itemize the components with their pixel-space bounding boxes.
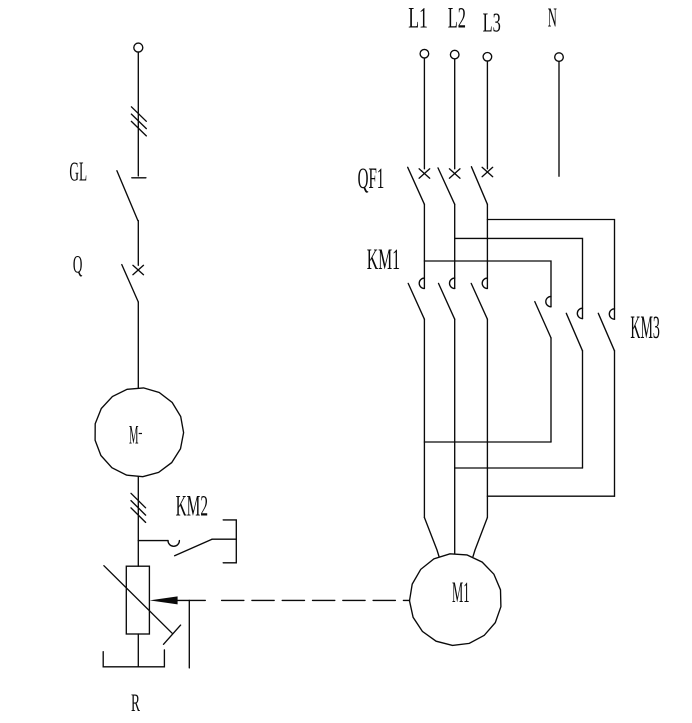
svg-text:L1: L1	[408, 2, 428, 34]
contactor KM1 pole3 blade	[471, 283, 487, 319]
svg-text:M: M	[129, 419, 139, 449]
wire: tap L2 to KM3 pole2	[455, 238, 583, 318]
wire: KM1 pole1 down	[423, 319, 425, 517]
svg-text:M1: M1	[452, 576, 470, 609]
contactor KM3 pole3 arc	[609, 309, 614, 319]
disconnector GL blade	[117, 171, 138, 221]
wire: left feeder drop to GL	[137, 52, 139, 176]
mechanical link arrowhead	[150, 596, 178, 604]
wire: KM3 pole3 down	[614, 351, 616, 496]
mechanical link dashed line to M1	[222, 599, 410, 601]
resistor R adjustment diagonal	[104, 566, 172, 634]
motor M1 circle	[410, 554, 501, 646]
svg-text:QF1: QF1	[358, 162, 385, 195]
svg-text:KM2: KM2	[176, 489, 208, 522]
svg-text:KM1: KM1	[367, 243, 400, 276]
wire: GL to Q	[137, 221, 139, 266]
label M dash	[139, 433, 142, 435]
breaker QF1 pole3 cross	[482, 167, 493, 176]
svg-text:KM3: KM3	[630, 310, 660, 346]
svg-text:L3: L3	[483, 7, 501, 37]
wire: tap L3 to KM3 pole3	[487, 220, 614, 320]
breaker Q cross mark	[133, 265, 144, 274]
wire: converge left into M1	[424, 518, 439, 557]
wire: join KM1 pole2 / KM3 pole2	[455, 467, 583, 469]
contact KM2 blade	[175, 539, 212, 556]
disconnector GL fixed contact T-bar	[132, 177, 146, 179]
terminal circle L1	[420, 49, 429, 58]
resistor bottom bracket	[103, 650, 164, 667]
contact KM2 fixed contact arc	[168, 541, 179, 547]
breaker QF1 pole2 blade	[438, 168, 455, 204]
wire: KM3 pole1 down	[550, 338, 552, 442]
wire: QF1 pole1 to KM1	[423, 204, 425, 288]
terminal circle N	[555, 53, 564, 62]
wire: QF1 pole2 to KM1	[454, 204, 456, 288]
contactor KM3 pole1 arc	[546, 296, 551, 306]
slider drop wire	[188, 600, 190, 668]
resistor R body	[126, 566, 149, 634]
wire: L2 drop to QF1	[454, 59, 456, 169]
contactor KM1 pole3 arc	[482, 278, 487, 288]
breaker QF1 pole1 blade	[408, 167, 425, 204]
wire: L3 drop to QF1	[486, 61, 488, 169]
wire: converge right into M1	[473, 518, 487, 557]
wire: KM1 pole2 down to motor	[454, 319, 456, 553]
contactor KM1 pole2 arc	[450, 278, 455, 288]
contactor KM1 pole1 blade	[408, 283, 424, 319]
contactor KM1 pole2 blade	[439, 283, 455, 319]
wire: QF1 pole3 to KM1	[486, 204, 488, 288]
breaker Q blade	[122, 265, 139, 302]
breaker QF1 pole1 cross	[419, 169, 430, 178]
mechanical link solid lead	[178, 599, 206, 601]
contactor KM3 pole3 blade	[598, 313, 614, 351]
terminal circle L3	[483, 53, 492, 62]
svg-text:N: N	[548, 2, 557, 33]
wire: tap L1 to KM3 pole1	[424, 261, 551, 307]
svg-text:L2: L2	[448, 2, 466, 34]
wire: KM2 branch horizontal	[138, 540, 168, 542]
breaker QF1 pole2 cross	[449, 169, 460, 178]
contactor KM3 pole2 arc	[577, 308, 582, 318]
wire: join KM1 pole1 / KM3 pole1	[424, 441, 551, 443]
svg-text:R: R	[131, 690, 140, 717]
svg-text:Q: Q	[73, 251, 83, 278]
wire: L1 drop to QF1	[423, 58, 425, 169]
wire: KM1 pole3 down	[486, 319, 488, 517]
wire: resistor bottom stub	[137, 634, 139, 667]
breaker QF1 pole3 blade	[471, 167, 487, 205]
contactor KM3 pole2 blade	[566, 313, 582, 351]
3-phase hash marks (top)	[131, 107, 146, 136]
contactor KM3 pole1 blade	[535, 302, 551, 338]
3-phase hash marks (bottom)	[131, 493, 146, 522]
terminal circle (left feeder top)	[134, 43, 143, 52]
wire: motor M to resistor R	[137, 477, 139, 566]
motor M circle	[95, 388, 184, 477]
resistor R preset T-bar	[164, 625, 181, 644]
wire: KM3 pole2 down	[582, 351, 584, 468]
wire: Q to motor M	[137, 302, 139, 388]
wire: KM2 blade to bracket	[212, 538, 236, 540]
contactor KM1 pole1 arc	[419, 278, 424, 288]
KM2 right bracket	[223, 520, 236, 563]
svg-text:GL: GL	[69, 157, 87, 187]
wire: join KM1 pole3 / KM3 pole3	[487, 495, 614, 497]
wire: N stub	[558, 61, 560, 176]
terminal circle L2	[450, 50, 459, 59]
